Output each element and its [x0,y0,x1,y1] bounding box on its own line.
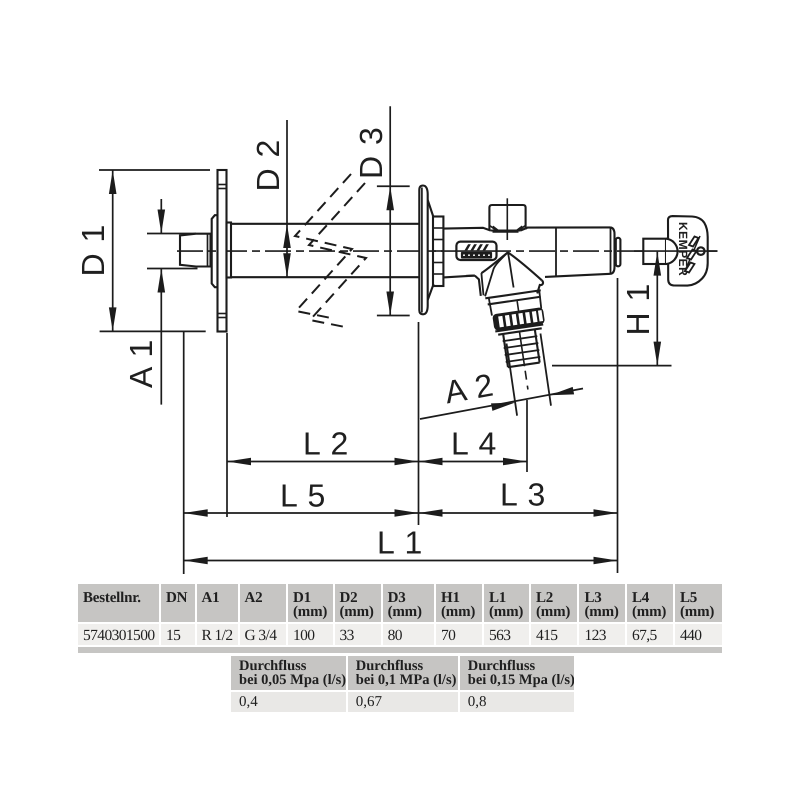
A2 extension lines [507,343,518,415]
pipe break symbol [295,174,366,327]
thread stub R1/2 [180,234,211,267]
KEMPER label plate [455,242,498,260]
wall boss right sliver [227,223,232,278]
svg-text:A 2: A 2 [442,366,497,410]
spindle end cap [616,238,621,266]
arrowhead D1 top [109,170,117,194]
arrowhead A1 bottom [158,269,166,293]
cone outlet [481,252,508,273]
dimension D3 extension line bottom [377,315,410,317]
svg-text:D 1: D 1 [75,224,111,277]
table 1 [78,584,722,645]
extension line wall flange face [226,333,228,517]
dimension D3 line [389,106,391,315]
body bottom left [466,275,475,277]
dimension A1 extension line bottom [147,268,198,270]
table 2 [231,656,574,712]
key handle [668,216,708,286]
arrowhead L1 right [594,557,618,565]
coupling socket [643,239,666,264]
dimension H1 line [656,252,658,366]
arrowhead D2 top [283,224,291,248]
centerline main horizontal [177,250,718,252]
arrowhead L5 left [184,509,208,517]
svg-text:L 3: L 3 [500,477,546,513]
arrowhead D3 bottom [386,292,394,316]
svg-text:H 1: H 1 [620,283,656,336]
dimension D2 line [286,120,288,277]
dimension D3 extension line top [377,185,410,187]
dimension D1 extension line bottom [100,330,206,332]
port corner fillet shading [490,226,496,231]
arrowhead L3 right [594,509,618,517]
arrowhead L3 left [419,509,443,517]
arrowhead A2 left [491,403,515,411]
dimension D1 extension line top [99,169,210,171]
dimension L1 line [184,560,618,562]
dimension A1 extension line top [147,233,196,235]
svg-text:L 2: L 2 [303,426,349,462]
svg-text:D 2: D 2 [250,139,286,192]
extension line pipe left end [183,331,185,574]
arrowhead L5 right [395,509,419,517]
svg-text:D 3: D 3 [353,126,389,179]
arrowhead L2 right [395,458,419,466]
knurled nut [493,308,544,329]
rosette cone slopes [428,200,434,218]
dimension D1 line [112,170,114,331]
arrowhead A2 right [550,387,574,395]
dimension L5 and L3 line [184,512,618,514]
outlet axis dashes [525,371,528,390]
dimension H1 extension line bottom [552,365,672,367]
hose nipple [503,334,508,367]
arrowhead D1 bottom [109,307,117,331]
valve joint line [555,227,557,276]
rosette knurl ring [433,217,443,287]
valve body top right [521,227,611,230]
port centerline [506,198,508,240]
arrowhead L2 left [227,458,251,466]
svg-text:L 1: L 1 [377,525,423,561]
arrowhead L4 right [503,458,527,466]
dimension A1 line lower tail [160,269,162,405]
arrowhead H1 bottom [654,342,662,366]
svg-text:A 1: A 1 [123,339,159,388]
dimension A2 line [420,389,583,420]
extension line rosette face [418,322,420,525]
svg-text:L 4: L 4 [451,426,497,462]
wall boss left sliver [212,215,218,287]
arrowhead L4 left [419,458,443,466]
outlet group rotated [485,290,558,418]
arrowhead D2 bottom [283,253,291,277]
top port [489,205,525,230]
dimension A1 line upper tail [160,199,162,234]
arrowhead L1 left [184,557,208,565]
extension line valve right end [617,278,619,573]
arrowhead A1 top [158,210,166,234]
extension line outlet axis [526,400,528,472]
svg-text:L 5: L 5 [280,478,326,514]
dimension L2 and L4 line [227,461,527,463]
rosette face band [419,186,427,315]
arrowhead H1 top [654,252,662,276]
arrowhead D3 top [386,186,394,210]
pipe left section [231,223,419,225]
pipe to valve [443,228,490,231]
wall flange plate [218,170,227,332]
